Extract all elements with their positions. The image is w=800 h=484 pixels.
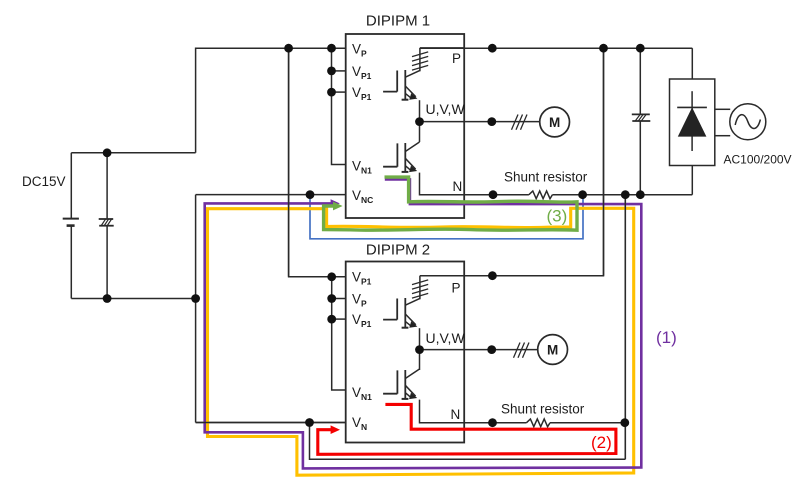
svg-text:DC15V: DC15V	[22, 174, 66, 189]
wire rectifier bottom return	[691, 166, 693, 195]
SECTION: base black wiring	[63, 34, 766, 459]
node DC15V positive	[103, 148, 112, 157]
node motor1 wire tap	[487, 117, 496, 126]
arrowhead purple into VNC	[331, 199, 340, 207]
wire supply drop redraw	[288, 48, 290, 277]
rectifier bridge box	[670, 79, 715, 166]
wire AC stub upper	[715, 108, 730, 110]
svg-text:M: M	[549, 115, 560, 130]
wire lower emitter to N DIPIPM1	[420, 173, 465, 195]
node bus2 VP	[327, 294, 336, 303]
SECTION: colored loops	[205, 177, 642, 475]
node shunt1 left	[489, 190, 498, 199]
IGBT upper DIPIPM2	[383, 298, 420, 328]
wire collector P with 3-phase hatch DIPIPM1	[412, 48, 428, 71]
svg-text:(1): (1)	[656, 328, 677, 347]
wire top P rail right	[420, 47, 692, 49]
shunt resistor R2	[527, 419, 551, 427]
wire purple loop path 1	[205, 179, 642, 468]
svg-text:Shunt resistor: Shunt resistor	[504, 170, 588, 185]
wire lower emitter to N DIPIPM2	[420, 400, 465, 423]
wire emitter to UVW node DIPIPM2	[419, 328, 421, 370]
DIPIPM 1 module box	[346, 34, 465, 218]
node shunt1 snubber	[621, 190, 630, 199]
svg-text:VNC: VNC	[352, 188, 373, 205]
IGBT upper DIPIPM1	[383, 70, 420, 100]
wire ground bus vertical (VNC to VN)	[195, 195, 197, 423]
node top rail phase tap	[488, 44, 497, 53]
node top rail at control bus 1	[327, 44, 336, 53]
node P wire DIPIPM2 tap	[488, 271, 497, 280]
wire VP1 stub b DIPIPM1	[332, 91, 346, 93]
node bus2 VP1b	[327, 315, 336, 324]
svg-text:DIPIPM 2: DIPIPM 2	[366, 242, 430, 259]
node top rail at supply drop	[284, 44, 293, 53]
wire yellow loop	[208, 208, 634, 475]
wire blue local loop DIPIPM1	[310, 195, 583, 239]
wire P line internal DIPIPM1	[420, 47, 464, 49]
wire DC15V bottom return	[71, 298, 195, 300]
node shunt2 left	[488, 418, 497, 427]
wire DC link drop redraw	[603, 48, 605, 276]
wire P line internal DIPIPM2	[420, 275, 464, 277]
DIPIPM 2 module box	[346, 262, 465, 443]
svg-text:VP1: VP1	[352, 312, 372, 329]
IGBT lower DIPIPM2	[383, 369, 419, 399]
node top rail at DC link drop	[599, 44, 608, 53]
capacitor C2 (DC link, polarized)	[632, 48, 651, 195]
SECTION: overdrawn black verticals	[196, 48, 626, 459]
wire control supply drop to DIPIPM2	[289, 48, 346, 277]
node UVW DIPIPM1	[415, 117, 424, 126]
wire control bus DIPIPM2	[332, 277, 346, 390]
node VN wire return tap	[305, 418, 314, 427]
3-phase hatch motor2	[514, 343, 530, 358]
node shunt2 right	[620, 418, 629, 427]
wire AC stub lower	[715, 135, 730, 137]
svg-text:M: M	[547, 343, 558, 358]
wire top P rail left (DC15V+ to VP pin)	[196, 48, 346, 153]
wire VP1 stub b DIPIPM2	[332, 318, 346, 320]
SECTION: junction dots	[103, 44, 645, 427]
wire shunt N rail DIPIPM1	[464, 194, 692, 196]
node DC15V negative cap	[103, 294, 112, 303]
motor M1	[540, 107, 570, 137]
svg-text:VP1: VP1	[352, 270, 372, 287]
wire collector P with 3-phase hatch DIPIPM2	[412, 276, 428, 300]
svg-text:DIPIPM 1: DIPIPM 1	[366, 13, 430, 30]
arrowhead red into VN	[331, 425, 340, 434]
node VNC wire blue tap	[306, 190, 315, 199]
svg-text:VP1: VP1	[352, 85, 372, 102]
wire VN feed horizontal	[196, 422, 346, 424]
capacitor C1 (15V smoothing, polarized)	[99, 153, 114, 299]
svg-text:P: P	[452, 51, 461, 66]
battery DC15V	[63, 153, 79, 299]
wire UVW output DIPIPM2	[420, 349, 538, 351]
wire DC link drop to DIPIPM2 P	[464, 48, 603, 276]
IGBT lower DIPIPM1	[383, 142, 419, 172]
wire green loop path 3	[324, 177, 577, 230]
svg-text:P: P	[452, 281, 461, 296]
wire VNC feed horizontal	[196, 194, 346, 196]
node shunt1 at C2	[636, 190, 645, 199]
svg-text:Shunt resistor: Shunt resistor	[501, 402, 585, 417]
node top rail at C2	[636, 44, 645, 53]
node VP1a bus 1	[327, 67, 336, 76]
shunt resistor R1	[529, 191, 553, 199]
wire VP1 stub a DIPIPM1	[332, 70, 346, 72]
node motor2 wire tap	[487, 345, 496, 354]
svg-text:U,V,W: U,V,W	[426, 330, 466, 346]
node DC15V negative bus	[191, 294, 200, 303]
3-phase hatch motor1	[512, 115, 528, 130]
wire emitter to UVW node DIPIPM1	[419, 100, 421, 142]
arrowhead green into VNC	[333, 202, 343, 211]
wire control bus DIPIPM1	[332, 48, 346, 164]
svg-text:VN1: VN1	[352, 159, 372, 176]
node bus2 VP1a	[327, 272, 336, 281]
wire shunt N rail DIPIPM2	[464, 422, 625, 424]
motor M2	[538, 335, 568, 365]
svg-text:VP1: VP1	[352, 64, 372, 81]
wire UVW output DIPIPM1	[420, 121, 540, 123]
AC source symbol	[730, 104, 766, 140]
wire snubber link vertical redraw	[624, 195, 626, 460]
svg-text:VN: VN	[352, 415, 367, 432]
svg-text:N: N	[451, 407, 461, 422]
wire rectifier top feed	[691, 48, 693, 79]
wire VP stub DIPIPM2	[332, 298, 346, 300]
wire inner return loop DIPIPM2	[310, 423, 626, 460]
node VP1b bus 1	[327, 88, 336, 97]
wire red loop path 2	[318, 404, 616, 454]
svg-text:(2): (2)	[591, 433, 612, 452]
svg-text:(3): (3)	[547, 207, 568, 226]
svg-text:VN1: VN1	[352, 385, 372, 402]
node UVW DIPIPM2	[415, 345, 424, 354]
diode D1	[677, 91, 707, 151]
node shunt1 right blue	[578, 190, 587, 199]
svg-text:VP: VP	[352, 291, 367, 308]
svg-text:VP: VP	[352, 42, 367, 59]
wire snubber link vertical	[624, 195, 626, 460]
wire DC15V horizontal	[71, 152, 195, 154]
svg-text:N: N	[453, 179, 463, 194]
wire VN feed redraw	[196, 422, 346, 424]
svg-text:U,V,W: U,V,W	[426, 101, 466, 117]
svg-text:AC100/200V: AC100/200V	[724, 152, 792, 166]
